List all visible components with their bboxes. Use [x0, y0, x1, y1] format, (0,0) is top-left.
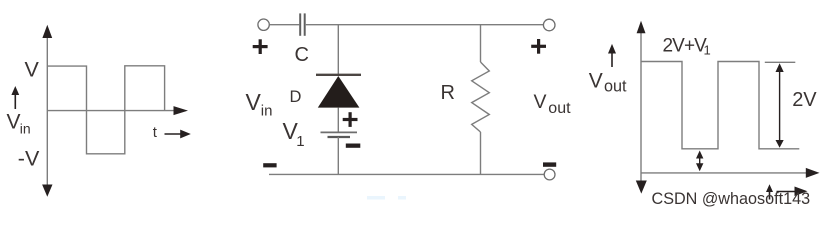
svg-text:V: V — [25, 57, 40, 81]
diode D cathode bar — [316, 74, 361, 76]
svg-text:2V+V: 2V+V — [663, 36, 708, 57]
wire: battery negative to bottom rail — [337, 137, 339, 174]
small up arrow above Vin label — [11, 86, 19, 109]
output square waveform Vout — [641, 62, 799, 149]
wire: resistor to bottom rail — [480, 132, 482, 174]
svg-text:2V: 2V — [792, 89, 817, 111]
input square waveform Vin — [47, 66, 164, 154]
battery V1 negative plate (short) — [328, 136, 351, 138]
wire: top rail down to diode cathode — [337, 25, 339, 74]
wire: left terminal to capacitor — [270, 24, 300, 26]
resistor R zigzag — [472, 62, 490, 132]
battery V1 positive plate (long) — [321, 131, 358, 133]
small dimension double arrow between low level and axis — [696, 151, 703, 172]
minus sign at bottom-right output terminal — [543, 162, 556, 166]
svg-text:V: V — [534, 91, 547, 113]
small right arrow after t label — [165, 130, 191, 139]
svg-text:CSDN @whaosoft143: CSDN @whaosoft143 — [652, 190, 811, 208]
input terminal circle top-left — [258, 19, 269, 30]
svg-text:out: out — [604, 78, 627, 96]
label Vout (output axis) — [589, 70, 627, 96]
output graph horizontal axis (t axis) — [641, 168, 820, 178]
output terminal circle top-right — [543, 19, 555, 31]
label Vin (circuit input) — [246, 89, 273, 119]
plus sign at right output terminal — [531, 39, 546, 54]
label Vout (circuit output) — [534, 91, 572, 117]
svg-text:D: D — [290, 88, 302, 106]
svg-text:V: V — [7, 111, 21, 134]
minus sign at bottom-left of circuit — [263, 163, 276, 167]
svg-text:1: 1 — [704, 43, 711, 58]
output graph vertical axis (Vout axis) — [636, 21, 647, 194]
small right arrow at bottom right (t axis marker) — [777, 187, 808, 197]
bottom rail wire — [269, 173, 544, 175]
diode D triangle (anode, pointing up) — [318, 76, 360, 108]
svg-text:R: R — [441, 82, 455, 104]
svg-text:C: C — [295, 44, 309, 66]
label Vin (input axis) — [7, 111, 31, 137]
minus sign at battery negative — [346, 144, 361, 148]
svg-text:in: in — [20, 121, 31, 137]
svg-text:out: out — [548, 100, 571, 117]
svg-text:t: t — [153, 124, 158, 141]
wire: capacitor to right terminal (top rail) — [306, 24, 544, 26]
label 2V+V1 (output high level) — [663, 36, 711, 58]
2V dimension double arrow — [776, 63, 784, 148]
small up arrow near t label (bottom right) — [766, 184, 773, 199]
label V1 (battery) — [283, 118, 305, 150]
output terminal circle bottom-right — [544, 169, 555, 180]
small up arrow above Vout label — [608, 44, 616, 67]
capacitor C1 plates — [300, 13, 305, 35]
top reference line at 2V+V1 level — [765, 61, 796, 63]
input graph vertical axis (Vin axis) — [42, 25, 52, 197]
svg-text:-V: -V — [18, 146, 40, 170]
svg-text:V: V — [246, 89, 262, 115]
input graph horizontal axis (t axis) — [47, 106, 188, 115]
faint caption remnant marks — [367, 196, 406, 200]
svg-text:V: V — [589, 70, 603, 93]
wire: top rail down to resistor — [480, 25, 482, 62]
svg-text:in: in — [261, 102, 273, 119]
svg-text:1: 1 — [296, 133, 304, 150]
plus sign at battery positive — [343, 112, 358, 127]
plus sign at left input terminal — [253, 39, 268, 54]
wire: diode anode to battery positive plate — [337, 108, 339, 132]
